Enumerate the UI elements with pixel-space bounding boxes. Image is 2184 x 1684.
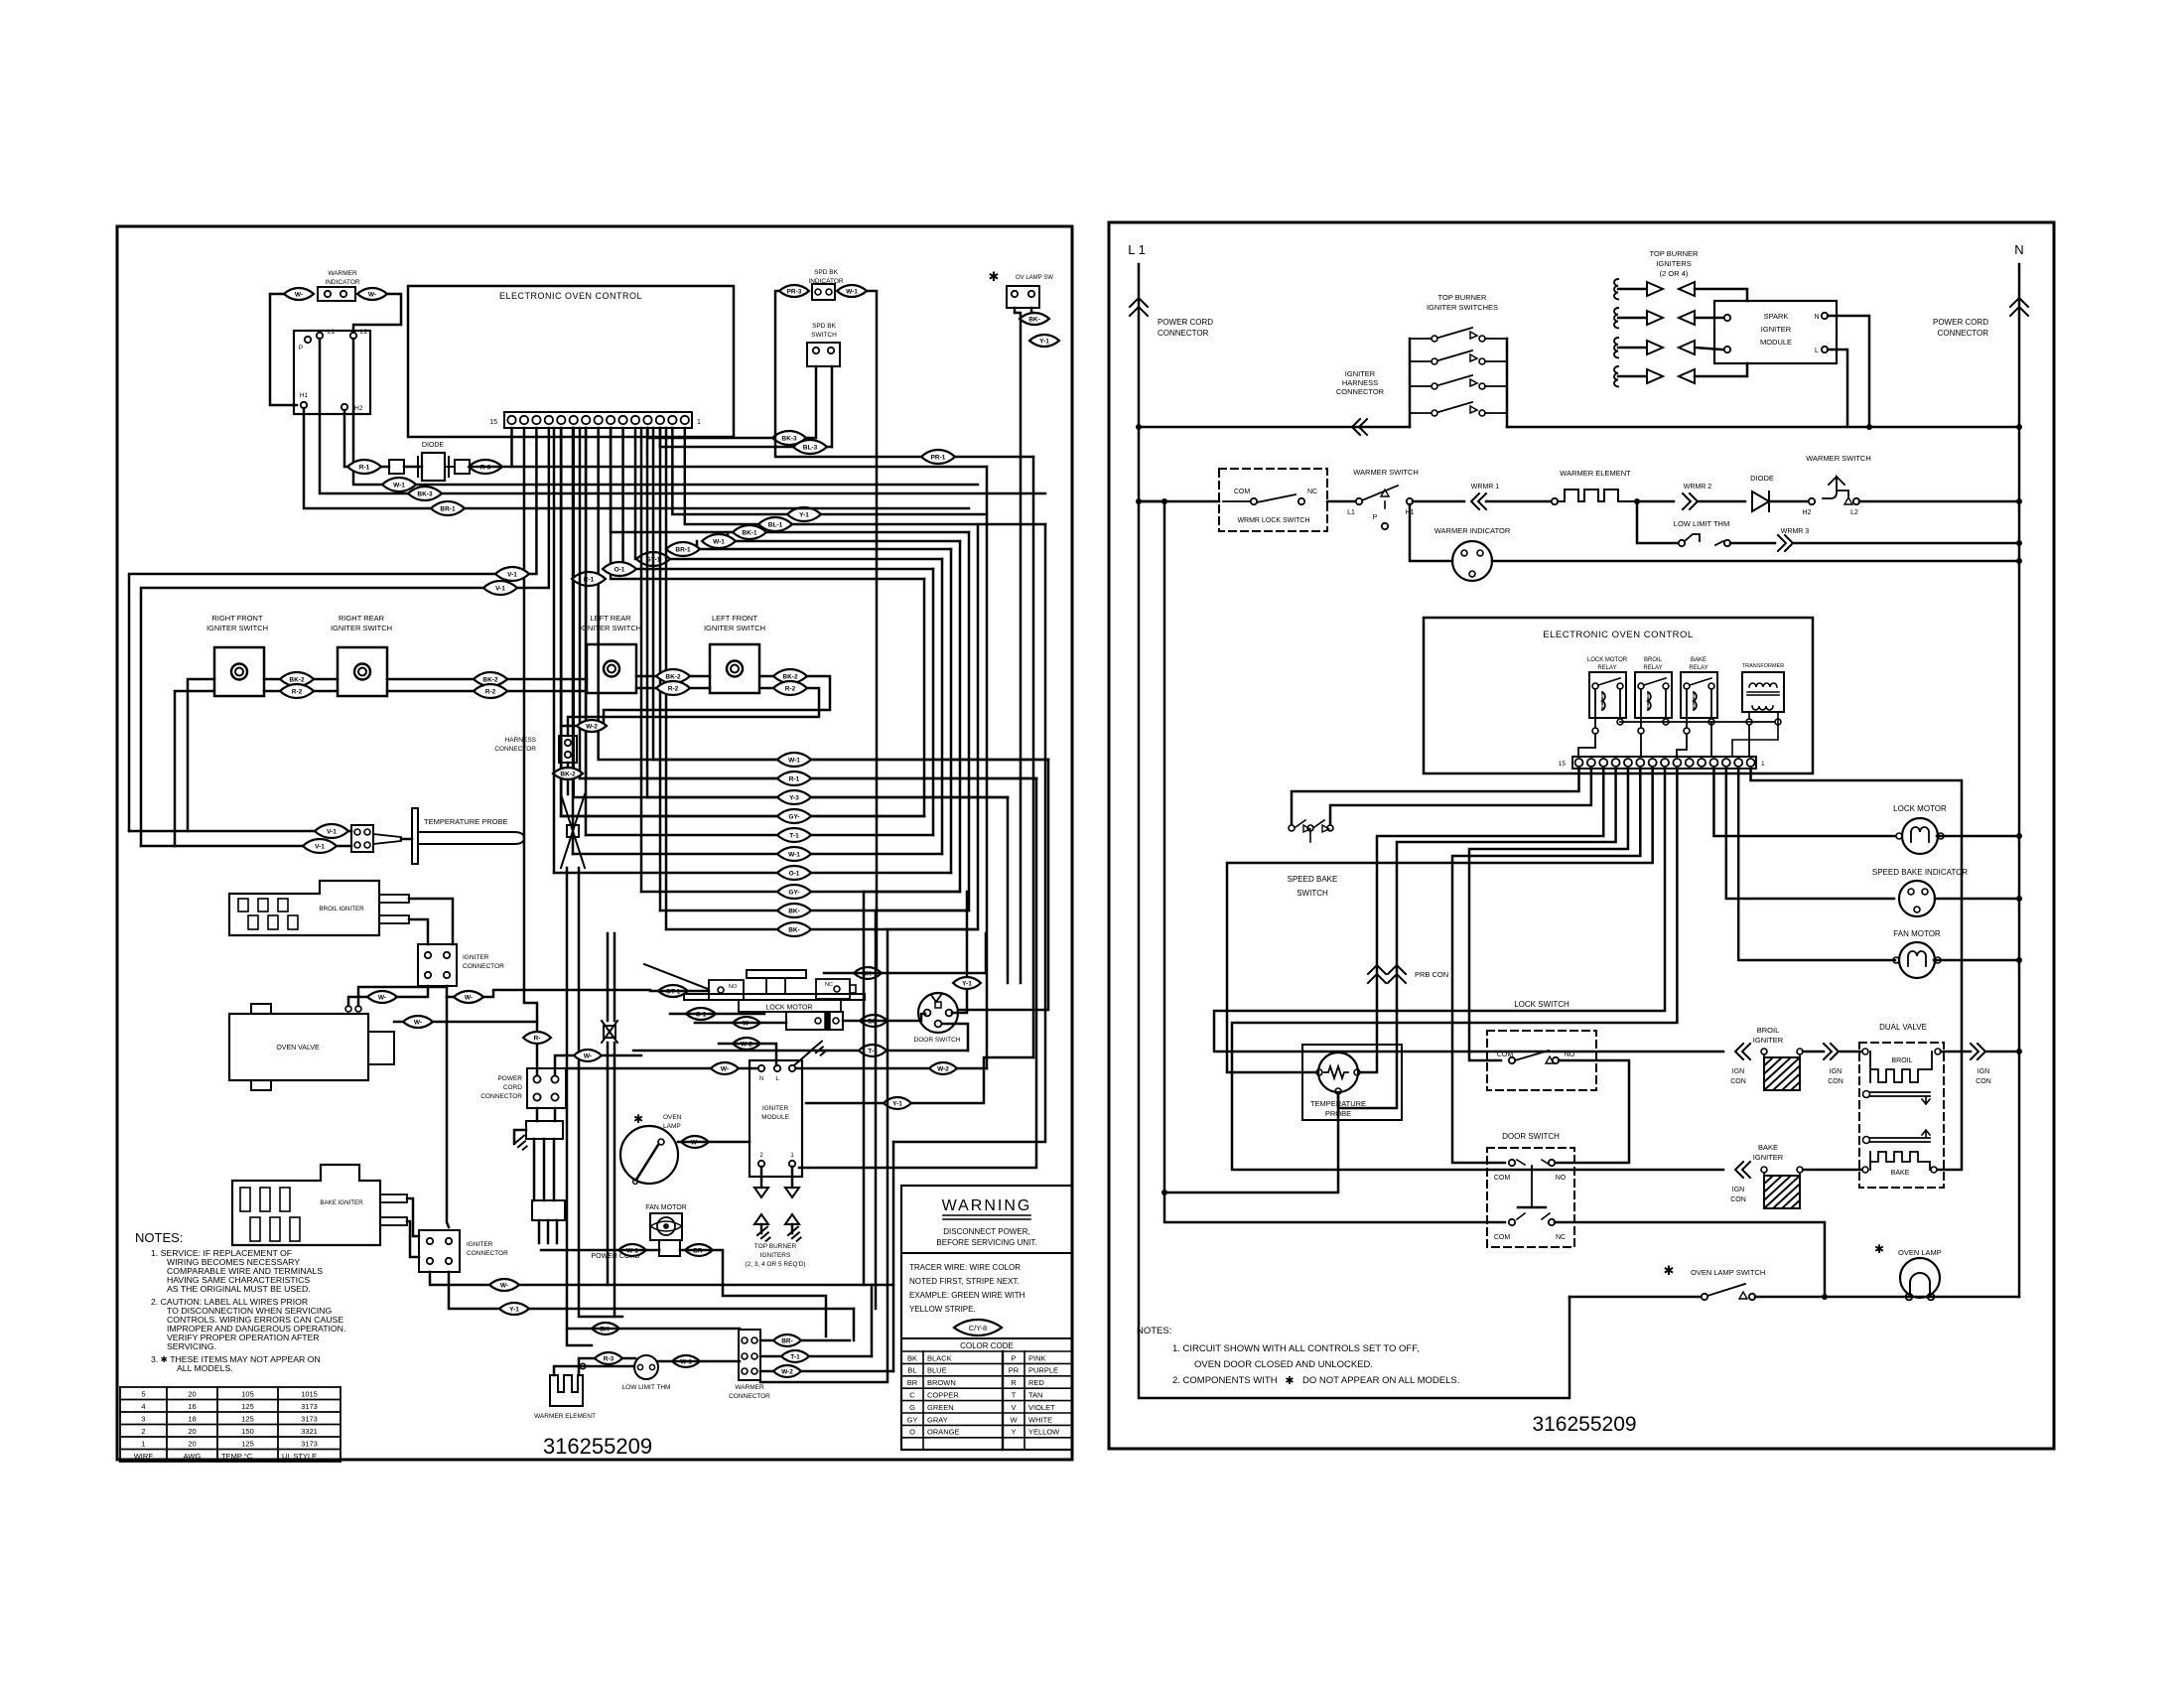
svg-text:WARMER: WARMER: [328, 270, 357, 277]
svg-text:BK-: BK-: [1028, 317, 1040, 324]
svg-text:W-: W-: [584, 1053, 592, 1060]
svg-text:R-2: R-2: [785, 686, 796, 693]
wire LF out R-2: [568, 688, 819, 736]
row553 wire: [697, 548, 951, 551]
low limit thermostat: [634, 1355, 658, 1379]
svg-text:BLUE: BLUE: [927, 1366, 947, 1375]
svg-text:NO: NO: [1556, 1175, 1567, 1182]
connector V-1 row578: [495, 567, 529, 581]
ground symbol: [514, 1130, 526, 1144]
svg-text:O-1: O-1: [789, 871, 800, 878]
diode row square 1: [389, 460, 404, 474]
svg-text:1: 1: [1761, 761, 1765, 768]
svg-text:BK-: BK-: [788, 909, 800, 915]
svg-text:20: 20: [188, 1427, 196, 1436]
wire rt13 prb con A: [1361, 769, 1603, 1072]
svg-text:W-1: W-1: [788, 852, 800, 859]
oven lamp switch S1: [1007, 286, 1039, 308]
svg-text:LOCK SWITCH: LOCK SWITCH: [1514, 1000, 1570, 1009]
svg-text:BL-1: BL-1: [768, 522, 783, 529]
EOC terminal strip P1: [504, 412, 692, 428]
svg-text:CONNECTOR: CONNECTOR: [1938, 329, 1989, 338]
svg-text:IGNITER SWITCH: IGNITER SWITCH: [704, 624, 765, 632]
connector R-2 b: [474, 684, 507, 698]
wire W- oval feed: [394, 1021, 537, 1024]
svg-text:✱: ✱: [633, 1112, 643, 1126]
connector V-1 probe upper: [315, 824, 348, 838]
connector BK- above lock: [854, 967, 882, 979]
connector BR- lock right: [860, 1015, 887, 1027]
svg-text:BK-: BK-: [788, 927, 800, 934]
connector BR- fan right: [685, 1244, 713, 1256]
relay drops to strip: [1578, 734, 1595, 757]
top burner igniter switches bank: [1409, 339, 1412, 427]
connector V-1 probe lower: [303, 839, 337, 853]
wire wrmr lock sw left lead: [1139, 500, 1164, 503]
connector W-2 under lock to module L: [733, 1038, 760, 1050]
terminal H1 warmer: [1407, 498, 1413, 504]
connector BL-1 row528: [758, 517, 792, 531]
svg-text:COPPER: COPPER: [927, 1391, 959, 1400]
color code table: [901, 1350, 1072, 1352]
valve broil right to N: [1941, 1051, 1971, 1053]
svg-text:WARMER ELEMENT: WARMER ELEMENT: [534, 1413, 596, 1420]
wires bake igniter to connector: [407, 1198, 419, 1236]
svg-text:NOTES:: NOTES:: [135, 1230, 183, 1245]
wire t6 to row573: [623, 428, 933, 569]
svg-text:1. CIRCUIT SHOWN WITH ALL: 1. CIRCUIT SHOWN WITH ALL CONTROLS SET T…: [1172, 1343, 1420, 1354]
wire bottom row 1405: [760, 929, 887, 1382]
svg-text:AWG: AWG: [184, 1452, 202, 1461]
svg-text:COM: COM: [1494, 1234, 1511, 1241]
connector Y-3 row803: [777, 790, 811, 804]
igniter 3 wire: [1695, 348, 1722, 350]
NC switch box: [816, 979, 850, 999]
svg-text:W-: W-: [500, 1283, 508, 1290]
svg-text:P: P: [1011, 1353, 1016, 1362]
svg-text:CONNECTOR: CONNECTOR: [729, 1393, 770, 1400]
igniter harness bus: [1139, 426, 1410, 429]
warmer indicator lamp: [318, 287, 355, 301]
oven valve top terminals: [345, 1006, 351, 1012]
igniter harness connector chevrons: [1352, 419, 1367, 435]
terminal P warmer: [1384, 501, 1386, 508]
svg-text:(2, 3, 4 OR 5 REQ'D): (2, 3, 4 OR 5 REQ'D): [745, 1261, 805, 1268]
wire module N to bus: [1828, 316, 1869, 427]
svg-text:18: 18: [188, 1415, 196, 1424]
wire middle row y860: [573, 853, 942, 856]
svg-text:SWITCH: SWITCH: [1297, 889, 1328, 898]
svg-text:WRMR 2: WRMR 2: [1684, 484, 1711, 491]
door switch S6: [918, 993, 958, 1033]
svg-text:NC: NC: [1556, 1234, 1566, 1241]
svg-text:RELAY: RELAY: [1689, 665, 1707, 671]
svg-text:WHITE: WHITE: [1028, 1415, 1052, 1424]
svg-text:AS THE ORIGINAL MUST BE U: AS THE ORIGINAL MUST BE USED.: [167, 1284, 311, 1294]
temperature probe feed row lower: [141, 845, 351, 848]
svg-text:OVEN DOOR CLOSED AND UNLOC: OVEN DOOR CLOSED AND UNLOCKED.: [1194, 1359, 1373, 1370]
svg-text:W-1: W-1: [393, 483, 405, 490]
connector Y-1 row1318: [499, 1303, 529, 1315]
wire middle row y803: [647, 796, 1008, 799]
igniter 1 wire: [1695, 289, 1747, 301]
wire oven valve terminal 2: [358, 987, 447, 1006]
wire lock sw to L1 terminal: [1327, 500, 1355, 503]
lock motor bar: [684, 994, 865, 1000]
wire middle row y784: [580, 777, 1036, 780]
svg-text:SPEED BAKE INDICATOR: SPEED BAKE INDICATOR: [1872, 868, 1968, 877]
svg-text:RIGHT FRONT: RIGHT FRONT: [211, 614, 263, 623]
svg-text:BR-1: BR-1: [440, 506, 456, 513]
svg-text:Y-1: Y-1: [1039, 339, 1049, 346]
svg-text:L: L: [1815, 348, 1819, 354]
svg-text:NC: NC: [1307, 489, 1317, 495]
warmer element right: [1552, 498, 1558, 504]
svg-text:CONNECTOR: CONNECTOR: [1336, 387, 1385, 396]
svg-text:CORD: CORD: [503, 1084, 522, 1091]
wire x882: [875, 911, 878, 1309]
svg-text:GY: GY: [907, 1415, 918, 1424]
svg-text:SPEED BAKE: SPEED BAKE: [1288, 875, 1338, 884]
svg-text:125: 125: [241, 1440, 254, 1449]
connector R-1 row583: [572, 572, 606, 586]
connector W- right of J2: [454, 991, 483, 1003]
wire rt8 broil loop: [1214, 769, 1723, 1052]
svg-text:IGNITER: IGNITER: [463, 954, 489, 961]
svg-text:IGNITER SWITCH: IGNITER SWITCH: [331, 624, 392, 632]
left rear igniter switch S4: [587, 644, 636, 693]
connector BR-1 row512: [431, 501, 465, 515]
wire t12 V-1 feed lower: [141, 428, 549, 846]
connector BL-3: [793, 440, 827, 454]
svg-text:V: V: [1011, 1403, 1016, 1412]
svg-text:1015: 1015: [301, 1390, 318, 1399]
svg-text:BK-1: BK-1: [742, 530, 757, 537]
svg-text:COM: COM: [1234, 489, 1251, 495]
wire t4 spd-bake-sw BK-3: [647, 428, 814, 438]
terminal H2: [1809, 498, 1815, 504]
connector GY- row898: [777, 885, 811, 899]
svg-text:NO: NO: [729, 984, 738, 990]
wrmr lock switch box: [1219, 469, 1327, 531]
svg-text:BK-2: BK-2: [560, 772, 576, 778]
svg-text:TRANSFORMER: TRANSFORMER: [1742, 663, 1785, 669]
broil igniter hatch: [1761, 1049, 1767, 1054]
terminal H1: [301, 402, 307, 408]
connector R- power cord feed: [523, 1032, 551, 1044]
svg-text:20: 20: [188, 1440, 196, 1449]
svg-text:IGNITER SWITCHES: IGNITER SWITCHES: [1427, 303, 1498, 312]
oven lamp switch row: [1570, 1296, 1701, 1299]
wire Y-1 long row to module side: [806, 1057, 1033, 1103]
connector V-1 row592: [483, 581, 517, 595]
wire x860 vertical: [853, 1309, 856, 1340]
svg-text:W-2: W-2: [586, 724, 598, 731]
igniter 4 wire: [1695, 363, 1747, 376]
svg-text:CON: CON: [1730, 1196, 1746, 1203]
svg-text:IGNITER: IGNITER: [1753, 1036, 1784, 1045]
svg-text:✱: ✱: [1664, 1263, 1675, 1278]
svg-text:NC: NC: [825, 982, 833, 988]
svg-text:OVEN LAMP SWITCH: OVEN LAMP SWITCH: [1691, 1268, 1765, 1277]
svg-text:OVEN LAMP: OVEN LAMP: [1898, 1248, 1942, 1257]
svg-text:BR-1: BR-1: [675, 547, 691, 554]
svg-text:20: 20: [188, 1390, 196, 1399]
wire pcc second top lead: [555, 1055, 641, 1075]
svg-text:W-2: W-2: [781, 1369, 793, 1376]
svg-text:BL-3: BL-3: [803, 445, 818, 452]
module up arrows with ground: [754, 1214, 768, 1224]
svg-text:BEFORE SERVICING UNIT.: BEFORE SERVICING UNIT.: [936, 1238, 1036, 1247]
svg-text:ALL MODELS.: ALL MODELS.: [177, 1363, 233, 1373]
svg-text:TEMPERATURE PROBE: TEMPERATURE PROBE: [424, 817, 507, 826]
broil IGN CON mid: [1803, 1051, 1824, 1053]
connector BK- row936: [777, 922, 811, 936]
wire rt11 to lock switch: [1469, 769, 1628, 1060]
wire R-3 row: [579, 1358, 635, 1375]
svg-text:CONNECTOR: CONNECTOR: [463, 963, 504, 970]
svg-text:✱: ✱: [1285, 1375, 1294, 1387]
wire probe bottom: [1167, 1094, 1338, 1193]
svg-text:105: 105: [241, 1390, 254, 1399]
connector W- pcc: [574, 1050, 602, 1061]
oven valve V1: [229, 1014, 368, 1080]
wire LR-LF BK-2: [636, 675, 710, 678]
wire rt2 fan motor: [1738, 769, 1895, 960]
svg-text:125: 125: [241, 1402, 254, 1411]
svg-text:Y-1: Y-1: [892, 1101, 902, 1108]
wire t11 to row822: [561, 428, 924, 816]
svg-text:CON: CON: [1730, 1078, 1746, 1085]
spark igniter module U3: [1714, 301, 1837, 363]
svg-text:T: T: [1012, 1391, 1017, 1400]
broil igniter R1: [229, 881, 379, 935]
svg-text:ELECTRONIC OVEN CONTROL: ELECTRONIC OVEN CONTROL: [1543, 630, 1693, 640]
wire RF left leads: [188, 679, 214, 831]
diode D1: [422, 453, 445, 481]
wire center vertical A: [567, 868, 592, 1345]
svg-text:R-2: R-2: [292, 689, 303, 696]
svg-text:O-1: O-1: [614, 567, 625, 574]
wire RR-LR BK-2: [387, 678, 587, 681]
svg-text:COLOR CODE: COLOR CODE: [960, 1341, 1014, 1350]
wire t5 to row563: [635, 428, 942, 559]
connector W-1 spd-bk-ind right: [837, 285, 867, 297]
svg-text:P: P: [1373, 514, 1378, 521]
wire J4 left lead to row1294: [430, 1272, 893, 1285]
bake IGN CON left: [1735, 1162, 1750, 1178]
power cord plug: [532, 1200, 565, 1220]
warmer connector J5: [739, 1330, 760, 1380]
svg-text:POWER CORD: POWER CORD: [1158, 318, 1213, 327]
svg-text:YELLOW STRIPE.: YELLOW STRIPE.: [909, 1305, 976, 1314]
connector W-2 above harness: [577, 720, 607, 732]
svg-text:TOP BURNER: TOP BURNER: [1438, 293, 1487, 302]
svg-text:R-2: R-2: [485, 689, 496, 696]
svg-text:G: G: [909, 1403, 915, 1412]
svg-text:BAKE: BAKE: [1891, 1170, 1910, 1177]
wire t7 to row583: [611, 428, 924, 579]
svg-text:TRACER WIRE: WIRE COLOR: TRACER WIRE: WIRE COLOR: [909, 1263, 1021, 1272]
svg-text:DISCONNECT POWER,: DISCONNECT POWER,: [943, 1227, 1029, 1236]
wire t2 to row518: [672, 428, 987, 514]
svg-text:1: 1: [141, 1440, 145, 1449]
svg-text:DOOR SWITCH: DOOR SWITCH: [1502, 1132, 1560, 1141]
svg-text:BK-2: BK-2: [665, 674, 681, 681]
svg-text:Y-3: Y-3: [789, 795, 799, 802]
svg-text:WARMER: WARMER: [735, 1384, 764, 1391]
broil igniter stubs: [379, 895, 409, 903]
wire rt7 bake loop: [1232, 769, 1723, 1170]
svg-text:2: 2: [141, 1427, 145, 1436]
broil IGN CON left: [1735, 1044, 1750, 1059]
svg-text:WARMER ELEMENT: WARMER ELEMENT: [1560, 469, 1631, 478]
terminal H2: [341, 404, 347, 410]
connector Y-1 row518: [787, 507, 821, 521]
wire x900 vertical: [892, 1142, 895, 1371]
svg-text:RELAY: RELAY: [1597, 665, 1616, 671]
top burner igniter 4: [1614, 366, 1618, 386]
svg-text:IGN: IGN: [1732, 1068, 1744, 1075]
wire t9 to row784: [586, 428, 1036, 778]
svg-text:SWITCH: SWITCH: [811, 332, 837, 339]
oven lamp L1: [620, 1126, 678, 1184]
middle bundle verticals: [652, 428, 655, 760]
svg-text:R-1: R-1: [359, 465, 370, 472]
connector W- module: [711, 1062, 739, 1074]
svg-text:316255209: 316255209: [1532, 1413, 1636, 1436]
svg-text:BR: BR: [907, 1378, 918, 1387]
svg-text:Y: Y: [1011, 1428, 1016, 1437]
svg-text:LAMP: LAMP: [663, 1123, 681, 1130]
wire t1 to row528: [685, 428, 1045, 524]
temperature probe TP1: [373, 834, 401, 844]
wire x870: [863, 892, 866, 1285]
svg-text:LEFT FRONT: LEFT FRONT: [712, 614, 758, 623]
connector W- oven valve: [403, 1016, 433, 1028]
wire rt14 to speed bake: [1330, 769, 1591, 824]
wire t15 to diode row: [510, 428, 513, 467]
SPD BK indicator lamp: [812, 284, 835, 300]
svg-text:316255209: 316255209: [543, 1434, 652, 1459]
connector R-2 d: [773, 681, 807, 695]
wire middle row y841: [586, 834, 933, 837]
svg-text:3321: 3321: [301, 1427, 318, 1436]
connector PR-3 spd-bk-ind left: [779, 285, 809, 297]
connector BK- under lamp sw: [1020, 313, 1049, 325]
svg-text:ELECTRONIC OVEN CONTROL: ELECTRONIC OVEN CONTROL: [499, 291, 642, 301]
wire t14 to power cord connector: [524, 428, 537, 1075]
warmer row bus: [1139, 500, 1219, 503]
svg-text:CON: CON: [1976, 1078, 1991, 1085]
wire door right terminal up: [952, 892, 967, 1013]
module ground stub: [794, 1052, 810, 1065]
connector BK-2 a: [280, 672, 314, 686]
svg-text:N: N: [2014, 242, 2023, 257]
wire spd-bk-ind left lead / PR-1 row: [775, 291, 1033, 457]
wire module L to bus: [1828, 350, 1847, 427]
wires broil igniter to connector: [409, 899, 453, 944]
wire LR-LF R-2: [636, 687, 710, 690]
svg-text:NOTED FIRST, STRIPE NEXT.: NOTED FIRST, STRIPE NEXT.: [909, 1277, 1020, 1286]
svg-text:YELLOW: YELLOW: [1028, 1428, 1060, 1437]
connector O-1 row573: [603, 562, 636, 576]
wire gauge table: [120, 1386, 341, 1388]
connector BK-2 d: [773, 669, 807, 683]
wire RR-LR R-2: [387, 690, 587, 693]
lock motor body top: [747, 970, 806, 978]
fan motor M1: [650, 1213, 682, 1240]
svg-text:2. COMPONENTS WITH: 2. COMPONENTS WITH: [1172, 1375, 1278, 1386]
svg-text:GY-: GY-: [788, 890, 799, 897]
svg-text:(2 OR 4): (2 OR 4): [1660, 269, 1689, 278]
svg-text:16: 16: [188, 1402, 196, 1411]
svg-text:IGNITER: IGNITER: [1753, 1153, 1784, 1162]
connector BK- row1338: [592, 1323, 619, 1334]
wire left vertical x1173: [1164, 501, 1505, 1222]
wire center vertical B: [579, 868, 622, 1317]
right rear igniter switch S3: [338, 647, 387, 696]
svg-text:3173: 3173: [301, 1415, 318, 1424]
right bundle verticals: [986, 467, 989, 1068]
svg-text:4: 4: [141, 1402, 145, 1411]
module terminal L: [1822, 347, 1828, 352]
svg-text:LOW LIMIT THM: LOW LIMIT THM: [1674, 519, 1729, 528]
svg-text:PR-1: PR-1: [931, 455, 946, 462]
svg-text:PRB CON: PRB CON: [1415, 970, 1448, 979]
wire middle row y765: [653, 759, 1048, 762]
connector O-1 row879: [777, 866, 811, 880]
svg-text:WIRE: WIRE: [134, 1452, 154, 1461]
svg-text:Y-1: Y-1: [509, 1307, 519, 1314]
wire H2 drop to diode row: [344, 410, 349, 467]
warmer switch blade: [1362, 486, 1398, 500]
svg-text:3173: 3173: [301, 1402, 318, 1411]
connector BK-2 b: [474, 672, 507, 686]
svg-text:W-: W-: [295, 292, 303, 299]
connector BK-2 c: [656, 669, 690, 683]
power cord wires: [533, 1139, 536, 1200]
top burner igniter 3: [1614, 338, 1618, 357]
svg-text:T-1: T-1: [790, 1354, 800, 1361]
svg-text:OVEN VALVE: OVEN VALVE: [276, 1045, 320, 1052]
svg-text:GY-: GY-: [788, 814, 799, 821]
wire lock sw NO to door NO: [1556, 1060, 1629, 1163]
svg-text:IGNITER: IGNITER: [1761, 325, 1792, 334]
warmer connector block: [294, 331, 370, 414]
bake igniter hatch: [1761, 1167, 1767, 1173]
svg-text:DUAL VALVE: DUAL VALVE: [1879, 1023, 1927, 1032]
connector W-1 row860: [777, 847, 811, 861]
connector T-1 row841: [777, 828, 811, 842]
bowtie junction 2: [602, 1021, 617, 1043]
C/Y-8 oval: [954, 1320, 1002, 1335]
lock motor label: [739, 1000, 841, 1012]
L1 power cord connector symbol: [1139, 264, 1570, 1398]
temperature probe right panel: [1302, 1045, 1402, 1120]
svg-text:POWER: POWER: [497, 1075, 522, 1082]
wire rt12 prb con B: [1338, 769, 1616, 1108]
dual valve broil outlet: [1870, 1091, 1930, 1093]
bake igniter R2: [232, 1165, 380, 1245]
connector BK-1 row536: [733, 525, 766, 539]
svg-text:WRMR LOCK SWITCH: WRMR LOCK SWITCH: [1237, 517, 1309, 524]
connector BR-2 module row: [929, 1062, 957, 1074]
svg-text:Y-1: Y-1: [799, 512, 809, 519]
svg-text:BK-2: BK-2: [482, 677, 498, 684]
power cord block: [526, 1121, 563, 1139]
connector W- left of J2: [367, 991, 397, 1003]
